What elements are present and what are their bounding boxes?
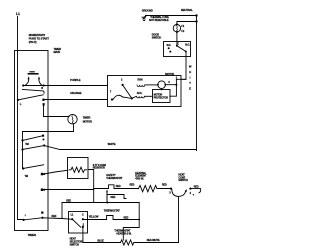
svg-text:SWITCH: SWITCH bbox=[178, 179, 188, 182]
svg-text:RED: RED bbox=[116, 185, 121, 188]
svg-text:MOMENTARY: MOMENTARY bbox=[29, 33, 46, 37]
svg-text:1: 1 bbox=[25, 215, 27, 217]
svg-text:HEATER-2 W.: HEATER-2 W. bbox=[117, 232, 132, 235]
timer motor coil squiggle bbox=[72, 116, 73, 124]
aux winding coil bbox=[137, 96, 145, 98]
safety thermostat bump bbox=[109, 185, 115, 189]
wire from node 4 with hook bbox=[190, 189, 200, 193]
safety thermostat label bbox=[106, 174, 123, 180]
svg-text:H: H bbox=[189, 70, 191, 74]
resistor R zigzag bbox=[69, 167, 86, 172]
resistor label 3.77 K OHM RESISTOR bbox=[93, 164, 106, 170]
resistor box bbox=[68, 158, 89, 179]
motor start blade bbox=[123, 85, 132, 99]
contact 2 terminal square upper bbox=[41, 173, 43, 176]
wire motor circle to protector bbox=[161, 89, 163, 90]
aux junction dot bbox=[131, 97, 133, 99]
wire timer motor return bbox=[23, 124, 74, 132]
contact L blade bbox=[18, 95, 43, 100]
thermostat heater label bbox=[114, 230, 131, 236]
svg-text:N.C.: N.C. bbox=[167, 44, 172, 47]
wire blue bottom from selector 2 bbox=[83, 227, 121, 243]
svg-text:F2: F2 bbox=[181, 30, 184, 33]
svg-text:RESISTOR: RESISTOR bbox=[93, 167, 105, 170]
thermal fuse circle bbox=[173, 25, 180, 32]
svg-text:T: T bbox=[189, 81, 191, 85]
svg-text:YELLOW: YELLOW bbox=[89, 216, 99, 219]
door switch C dot bbox=[176, 45, 178, 47]
svg-text:L1: L1 bbox=[71, 213, 74, 216]
contact 2 terminal dot lower bbox=[43, 189, 45, 191]
fuse terminal dot bottom bbox=[176, 31, 178, 33]
heat control switch node 4 dot bbox=[189, 188, 191, 190]
svg-text:4750 W.: 4750 W. bbox=[135, 178, 144, 181]
heat selector blade bbox=[72, 219, 81, 227]
heat selector node 2 dot bbox=[82, 226, 84, 228]
svg-text:RED-WHITE: RED-WHITE bbox=[147, 239, 160, 242]
heat control switch node 3 dot bbox=[170, 188, 172, 190]
svg-text:RED: RED bbox=[52, 215, 57, 218]
contact TM-A spare terminal bbox=[43, 139, 45, 141]
svg-text:MOTOR: MOTOR bbox=[83, 120, 92, 124]
junction dot purple right bbox=[43, 84, 45, 86]
wire protector to C junction bbox=[170, 85, 177, 97]
safety thermostat loop bbox=[107, 195, 126, 203]
svg-text:7: 7 bbox=[110, 91, 112, 94]
svg-text:ORANGE: ORANGE bbox=[70, 91, 82, 95]
timer main label bbox=[54, 47, 62, 54]
wire purple to motor box bbox=[48, 85, 108, 87]
svg-text:THERMOSTAT: THERMOSTAT bbox=[106, 177, 123, 180]
heating element zigzag bbox=[139, 185, 158, 191]
svg-text:PUSH TO START: PUSH TO START bbox=[29, 36, 50, 40]
heat selector L1 dot bbox=[71, 218, 73, 220]
svg-text:MOTOR: MOTOR bbox=[165, 73, 174, 76]
wire L1 vertical into timer box bbox=[18, 17, 24, 220]
run winding coil bbox=[137, 85, 145, 87]
door switch NC dot bbox=[168, 47, 170, 49]
wire to resistor box bbox=[44, 170, 68, 174]
svg-text:3: 3 bbox=[169, 191, 171, 195]
junction dot purple left bbox=[22, 84, 24, 86]
svg-text:NEUTRAL: NEUTRAL bbox=[181, 8, 193, 12]
wire yellow from C bbox=[83, 219, 107, 221]
motor terminal 7 dot bbox=[111, 98, 113, 100]
contact L blade upper edge bbox=[22, 89, 44, 93]
heating element label bbox=[135, 172, 147, 181]
text door switch bbox=[152, 34, 162, 40]
svg-text:L: L bbox=[20, 102, 22, 106]
svg-text:TM: TM bbox=[25, 175, 28, 178]
svg-text:RED: RED bbox=[130, 184, 135, 187]
door switch NC dot 2 bbox=[169, 51, 171, 53]
cycling thermostat bump bbox=[107, 216, 140, 220]
wire to timer motor bbox=[44, 106, 70, 117]
svg-text:RUN: RUN bbox=[138, 78, 143, 81]
wire right edge bbox=[196, 16, 198, 151]
svg-text:RED: RED bbox=[162, 184, 167, 187]
svg-text:L1: L1 bbox=[16, 12, 20, 16]
safety thermostat arrow bbox=[106, 191, 108, 199]
timer box bbox=[15, 51, 49, 231]
heat selector label bbox=[70, 238, 83, 247]
svg-text:NOT RESETABLE: NOT RESETABLE bbox=[149, 19, 169, 22]
motor circle left dot bbox=[157, 84, 159, 86]
svg-text:SWITCH: SWITCH bbox=[152, 36, 162, 39]
dot end hook bbox=[193, 194, 194, 195]
centrifugal switch arc bbox=[113, 95, 123, 99]
door switch box bbox=[164, 42, 191, 57]
motor terminal 2 dot bbox=[122, 84, 124, 86]
ground symbol bbox=[142, 15, 147, 20]
svg-text:N.O.: N.O. bbox=[185, 44, 190, 47]
motor circle right dot bbox=[164, 84, 166, 86]
junction dot on red feeder bbox=[107, 202, 109, 204]
push-to-start arrow right bbox=[39, 78, 42, 85]
contact 3 blade bbox=[24, 218, 43, 220]
fuse terminal dot top bbox=[176, 23, 178, 25]
node L dot bbox=[17, 99, 19, 101]
contact 2 terminal square lower bbox=[41, 189, 43, 192]
svg-text:RED: RED bbox=[124, 217, 129, 220]
push-to-start contact bar bbox=[28, 73, 38, 75]
svg-text:RED: RED bbox=[111, 196, 116, 199]
contact TM-A terminal square bbox=[42, 135, 44, 137]
heat selector C dot bbox=[82, 218, 84, 220]
svg-text:PROTECTOR: PROTECTOR bbox=[154, 96, 168, 99]
wire long red feeder bbox=[62, 203, 139, 219]
svg-text:PURPLE: PURPLE bbox=[70, 78, 81, 82]
text momentary push to start bbox=[29, 33, 50, 44]
wire heater feed bbox=[44, 189, 94, 191]
contact 2 blade bbox=[23, 165, 44, 169]
thermal fuse element squiggle bbox=[176, 25, 179, 31]
wire purple run inside timer box bbox=[23, 85, 48, 87]
contact TM-A pivot dot bbox=[21, 139, 23, 141]
svg-text:GROUND: GROUND bbox=[142, 9, 153, 13]
svg-text:4: 4 bbox=[190, 191, 192, 195]
contact TM-B blade bbox=[23, 146, 45, 150]
contact TM-B pivot dot bbox=[21, 148, 23, 150]
wire motor C out bbox=[165, 79, 186, 84]
junction dot neutral right bbox=[195, 14, 197, 16]
contact 3 pivot dot bbox=[23, 219, 25, 221]
svg-text:E: E bbox=[189, 87, 191, 91]
terminal square under purple junction bbox=[41, 87, 43, 89]
door switch NO dot bbox=[185, 51, 187, 53]
svg-text:F1: F1 bbox=[181, 25, 184, 28]
heat cont switch label bbox=[178, 173, 188, 182]
svg-text:WHITE: WHITE bbox=[108, 142, 116, 146]
wire white to right edge bbox=[44, 146, 196, 150]
wire heater main line bbox=[94, 188, 171, 190]
terminal square timer motor feed bbox=[43, 103, 45, 106]
thermostat heater zigzag bbox=[121, 240, 134, 245]
svg-text:C: C bbox=[82, 213, 84, 216]
wire neutral top bbox=[146, 15, 197, 17]
wire centrifugal to aux bbox=[123, 96, 137, 98]
contact TM-B output dot bbox=[43, 144, 45, 146]
svg-text:RED: RED bbox=[194, 185, 199, 188]
timer motor circle bbox=[68, 115, 77, 124]
svg-text:THERMOSTAT: THERMOSTAT bbox=[104, 210, 121, 213]
contact 3 terminal square bbox=[41, 212, 43, 214]
motor protector label bbox=[154, 93, 168, 99]
svg-text:TM: TM bbox=[25, 143, 28, 146]
svg-text:RED: RED bbox=[66, 200, 71, 203]
contact TM-A blade bbox=[23, 136, 43, 141]
wire down from feeder junction bbox=[123, 203, 139, 241]
wire red-white bottom bbox=[134, 196, 179, 242]
door switch blade bbox=[177, 46, 186, 52]
svg-text:I: I bbox=[190, 76, 191, 80]
svg-text:(PS-R): (PS-R) bbox=[29, 40, 37, 44]
wire orange to motor box bbox=[44, 99, 107, 101]
motor circle bbox=[158, 81, 166, 89]
heat selector switch box bbox=[69, 212, 88, 234]
heat control switch arrowhead bbox=[185, 189, 187, 192]
junction dot feeder-yellow bbox=[138, 219, 140, 221]
wire contact feeder from timer return bbox=[22, 132, 24, 169]
wire resistor output drop bbox=[88, 170, 94, 203]
svg-text:SWITCH: SWITCH bbox=[70, 243, 80, 246]
push-to-start arrow left bbox=[26, 78, 29, 85]
wire run to motor circle bbox=[145, 84, 158, 86]
contact 2 terminal dot upper bbox=[43, 173, 45, 175]
wire fuse feeder bbox=[177, 22, 197, 25]
svg-text:W: W bbox=[189, 65, 192, 69]
wire aux to protector bbox=[144, 95, 152, 97]
wire door switch to motor 1 bbox=[181, 52, 186, 79]
svg-text:MAIN: MAIN bbox=[54, 50, 60, 54]
svg-text:2: 2 bbox=[121, 78, 123, 81]
svg-text:TIMER: TIMER bbox=[83, 115, 91, 119]
wire fuse to door switch bbox=[176, 32, 178, 46]
svg-text:TIMER: TIMER bbox=[28, 233, 36, 237]
terminal square orange bbox=[42, 99, 44, 101]
text thermal fuse bbox=[149, 16, 169, 22]
junction dot fuse feeder bbox=[195, 20, 197, 22]
contact 3 output dot bbox=[41, 217, 43, 219]
svg-text:C: C bbox=[168, 81, 170, 84]
motor box bbox=[108, 76, 182, 107]
wire red to heat selector bbox=[43, 218, 73, 220]
timer motor label bbox=[83, 115, 92, 123]
motor protector box bbox=[153, 90, 171, 103]
junction dot protector-C bbox=[175, 84, 177, 86]
svg-text:BLUE: BLUE bbox=[98, 240, 105, 243]
text white vertical bbox=[189, 65, 192, 91]
heat control switch arc bbox=[172, 189, 186, 196]
contact 2 pivot dot bbox=[22, 167, 24, 169]
svg-text:AUX.: AUX. bbox=[137, 92, 143, 95]
